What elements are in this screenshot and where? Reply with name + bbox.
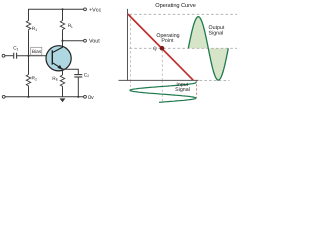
Q point [160, 46, 165, 51]
junction top rail RL [61, 8, 63, 10]
resistor RL [60, 21, 64, 32]
wire emitter to Re [62, 69, 64, 75]
resistor R2 [26, 75, 30, 88]
label operating point [156, 33, 179, 44]
wire left branch middle [28, 31, 30, 75]
vertical dashed left swing pink [130, 81, 132, 90]
svg-text:R1: R1 [32, 26, 37, 32]
svg-text:+Vcc: +Vcc [89, 7, 101, 13]
transistor Q1 [46, 46, 71, 71]
dashed line Q level [130, 47, 238, 49]
x-axis [119, 79, 199, 81]
ground arrow [60, 98, 66, 102]
svg-text:R2: R2 [32, 76, 37, 82]
terminal +Vcc [84, 8, 87, 11]
svg-text:Bias: Bias [32, 49, 42, 55]
svg-text:Q: Q [153, 46, 157, 52]
vertical dashed Q lower [161, 81, 163, 102]
wire Re lower [62, 88, 64, 97]
wire emitter to Ce [63, 69, 79, 74]
svg-text:C1: C1 [13, 46, 18, 52]
capacitor C1 [14, 53, 17, 59]
terminal 0v [84, 95, 87, 98]
input signal curve [130, 82, 196, 102]
wire collector lower [62, 41, 64, 47]
wire RL branch upper [62, 9, 64, 20]
wire Ce lower [77, 77, 79, 97]
vertical dashed right swing red [196, 80, 198, 98]
dashed x-axis extension [200, 79, 230, 81]
terminal common [2, 95, 5, 98]
junction Vout node [61, 40, 63, 42]
capacitor Ce [74, 75, 82, 77]
resistor Re [60, 75, 64, 88]
svg-text:C2: C2 [84, 72, 89, 78]
svg-text:Operating Curve: Operating Curve [155, 2, 196, 9]
junction base node [27, 55, 29, 57]
output signal fill [188, 17, 228, 80]
output signal curve [188, 17, 228, 80]
vertical dashed Q upper [161, 51, 163, 80]
label input signal [175, 82, 190, 93]
wire left branch upper [28, 9, 30, 21]
junction R2 bottom [27, 96, 29, 98]
svg-text:Vout: Vout [89, 39, 100, 45]
resistor R1 [26, 21, 30, 31]
label output signal [209, 25, 225, 37]
wire Vout tap [63, 40, 84, 42]
svg-text:RE: RE [52, 76, 58, 82]
svg-text:Signal: Signal [175, 87, 190, 93]
wire bottom rail [5, 96, 84, 98]
dashed line output max [130, 13, 238, 15]
y-axis [127, 9, 129, 81]
vertical dashed left swing [130, 14, 132, 79]
terminal input [2, 54, 5, 57]
wire top rail [29, 8, 84, 10]
wire collector upper [62, 31, 64, 41]
svg-text:0v: 0v [88, 95, 94, 101]
junction emitter node [61, 68, 63, 70]
svg-text:Signal: Signal [209, 31, 224, 37]
svg-text:RL: RL [68, 23, 73, 29]
load line [128, 14, 193, 80]
junction Ce bottom [77, 96, 79, 98]
terminal Vout [84, 39, 87, 42]
wire input [5, 55, 13, 57]
wire left branch lower [28, 87, 30, 97]
svg-text:Point: Point [161, 38, 174, 44]
wire base [17, 55, 52, 57]
bias box [31, 47, 42, 55]
